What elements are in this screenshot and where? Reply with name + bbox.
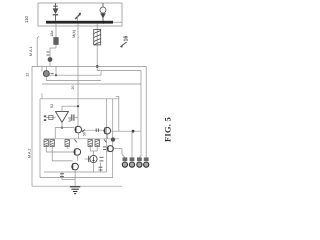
svg-text:16: 16 — [124, 36, 130, 42]
op-amp U2 — [56, 112, 69, 123]
outer box right edge — [112, 99, 114, 178]
wire x56 below rail — [55, 66, 57, 75]
mid box bottom y177 — [40, 177, 113, 179]
wire to right — [111, 130, 141, 132]
rail y84 — [42, 83, 141, 85]
leader line M.A.1 — [37, 36, 39, 66]
stems — [45, 146, 47, 152]
svg-text:12: 12 — [24, 73, 29, 77]
terminal T2 — [129, 157, 134, 167]
transistor Q2 — [104, 128, 106, 134]
terminal T1 — [122, 157, 127, 167]
junction dot on bar — [102, 21, 105, 24]
resistor R1 hatched — [94, 30, 101, 45]
junction dot rail — [96, 65, 99, 68]
box left edge x40 — [39, 99, 41, 178]
svg-text:20: 20 — [71, 86, 75, 90]
arrow on bar — [75, 14, 80, 19]
inner box right x106 — [106, 99, 108, 172]
svg-text:M.A.1: M.A.1 — [29, 46, 33, 56]
ground — [70, 180, 80, 194]
apex wire — [61, 122, 63, 127]
svg-text:56: 56 — [83, 132, 87, 136]
svg-text:52: 52 — [50, 104, 54, 108]
transistor Q1 — [75, 126, 77, 132]
rail y70.6 — [97, 70, 141, 72]
current source I1 in box — [100, 3, 106, 21]
transistor Q3 — [74, 149, 76, 155]
blob at x113 — [111, 137, 115, 141]
wire right v139 — [140, 71, 142, 156]
component row rail — [44, 138, 119, 140]
transistor Q5 — [103, 146, 106, 148]
transistor Q4 — [72, 163, 74, 169]
rail y66 — [32, 65, 146, 67]
svg-text:M(b): M(b) — [71, 29, 76, 38]
wire v118 — [118, 96, 120, 131]
ticks left of wire — [46, 51, 49, 53]
outer box bottom — [32, 185, 122, 187]
resistor R7 — [95, 140, 99, 147]
svg-text:54: 54 — [68, 118, 72, 122]
thick bar (diode bar 110) — [46, 21, 113, 24]
rail y75 — [46, 74, 101, 76]
left cluster transistor Q6 — [41, 66, 43, 71]
left long wire x32 — [31, 66, 33, 186]
current source I2 — [90, 155, 97, 162]
inner box bottom y172 — [44, 171, 107, 173]
svg-text:18a: 18a — [50, 31, 54, 37]
wire x97 down — [96, 24, 98, 71]
diode D1 in box — [53, 3, 58, 21]
component on wire x56 — [54, 38, 59, 45]
tick above box at x42 — [41, 94, 43, 99]
terminal T3 — [137, 157, 142, 167]
wire from bar end to box edge — [113, 21, 122, 23]
box top edge — [40, 98, 119, 100]
wire x78 long — [77, 24, 79, 127]
terminal T4 — [144, 157, 149, 167]
box U1 (laser diode module outline, top) — [38, 3, 122, 26]
caps right of I2 — [100, 156, 104, 158]
wire right v146 — [145, 66, 147, 157]
resistor R8 on v62 — [61, 172, 63, 180]
resistor R4 — [50, 140, 54, 147]
transistor Q7 blob — [48, 57, 53, 62]
base wire Q4 — [52, 160, 72, 162]
ticks — [74, 139, 76, 142]
wire x56 down — [55, 24, 57, 48]
wire jog — [50, 47, 56, 49]
mirror wire — [82, 129, 104, 131]
resistor R9 — [100, 163, 102, 173]
wire v131 — [131, 131, 133, 157]
svg-text:FIG. 5: FIG. 5 — [164, 117, 173, 142]
output wire + capacitor C1 — [68, 117, 70, 119]
resistor R3 — [44, 140, 48, 147]
input wire + resistor R2 — [46, 116, 56, 118]
base wire Q3 — [46, 151, 75, 153]
rail y80 — [46, 79, 101, 81]
svg-text:M.A.2: M.A.2 — [28, 149, 32, 158]
resistor R5 — [65, 140, 69, 147]
feedback wire — [62, 105, 78, 107]
resistor R6 — [88, 140, 92, 147]
svg-text:110: 110 — [24, 15, 29, 23]
